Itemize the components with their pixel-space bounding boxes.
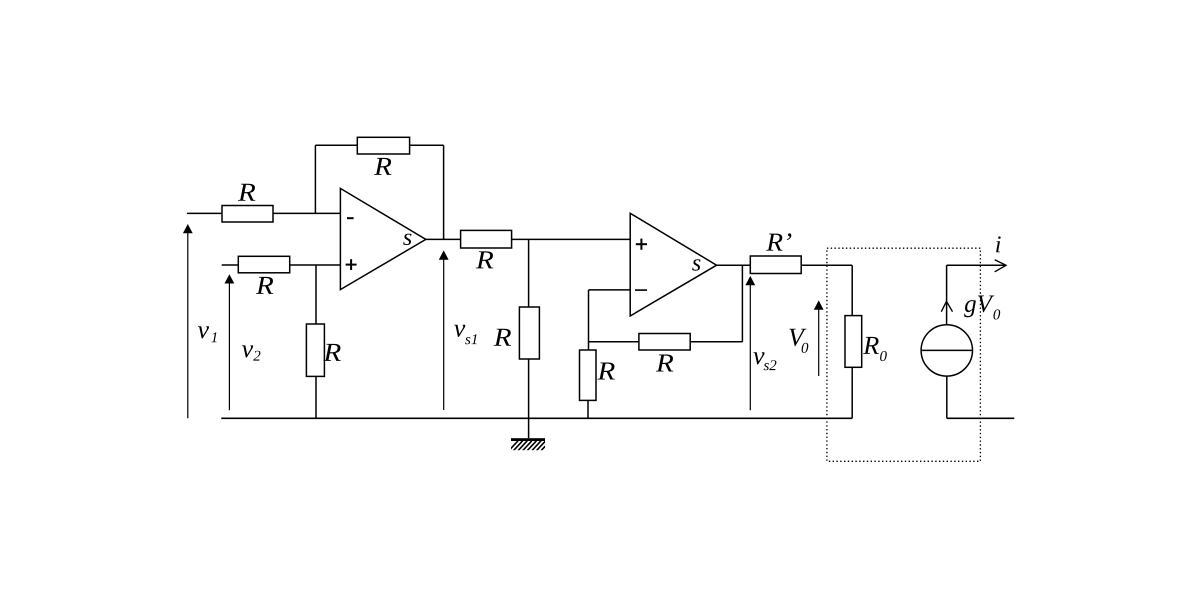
svg-text:R: R — [255, 271, 274, 300]
svg-text:0: 0 — [880, 349, 888, 365]
svg-text:s2: s2 — [763, 358, 777, 374]
svg-text:R: R — [322, 338, 341, 367]
svg-text:gV: gV — [964, 291, 995, 318]
svg-text:i: i — [995, 232, 1002, 258]
svg-text:s: s — [692, 251, 701, 277]
svg-text:v: v — [454, 314, 466, 343]
svg-text:R: R — [862, 331, 879, 360]
svg-text:s: s — [403, 225, 412, 251]
svg-text:s1: s1 — [465, 332, 478, 348]
svg-text:1: 1 — [211, 330, 219, 346]
svg-text:R: R — [493, 323, 512, 352]
svg-text:R: R — [655, 349, 674, 378]
svg-text:R’: R’ — [765, 228, 792, 257]
svg-text:R: R — [596, 356, 615, 385]
svg-text:R: R — [475, 245, 494, 274]
svg-text:0: 0 — [993, 307, 1001, 323]
svg-text:R: R — [237, 178, 256, 207]
svg-text:R: R — [373, 152, 392, 181]
svg-text:0: 0 — [801, 341, 809, 357]
svg-text:v: v — [197, 315, 209, 344]
svg-text:v: v — [242, 334, 254, 363]
svg-text:2: 2 — [253, 349, 261, 365]
